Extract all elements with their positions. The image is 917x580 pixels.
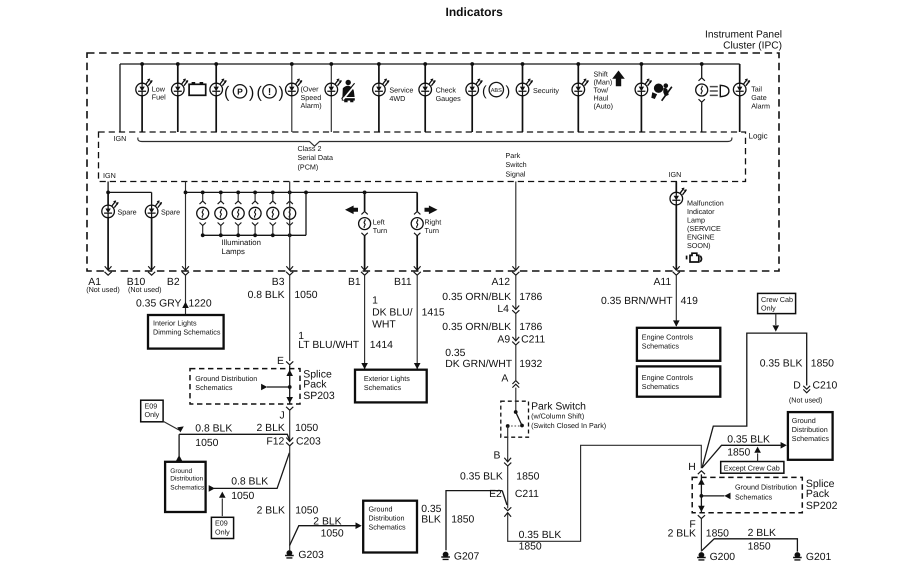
wire 0.8 BLK from GDS to F12 — [179, 434, 290, 440]
splice pack SP202 dashed box — [692, 477, 802, 512]
svg-text:Distribution: Distribution — [170, 476, 203, 483]
svg-text:C211: C211 — [515, 489, 539, 500]
pin A1 — [105, 266, 112, 270]
wire security lamp column — [522, 64, 524, 132]
svg-text:SP202: SP202 — [806, 500, 838, 512]
svg-text:0.35 BLK: 0.35 BLK — [760, 359, 803, 370]
box E09 Only (upper) — [141, 400, 163, 422]
park switch — [515, 388, 517, 412]
wire A9 to park switch A — [515, 345, 517, 380]
svg-text:0.35: 0.35 — [445, 348, 465, 359]
wire B1 to exterior lights — [364, 275, 366, 370]
wire B11 to exterior lights — [416, 275, 418, 370]
svg-text:Ground Distribution: Ground Distribution — [735, 482, 797, 491]
svg-text:D: D — [793, 381, 801, 392]
svg-text:1786: 1786 — [519, 322, 542, 333]
wire down to left GDS box — [178, 434, 180, 456]
svg-text:Cluster (IPC): Cluster (IPC) — [723, 41, 782, 52]
wire illumination bottom bus — [203, 192, 306, 235]
splice SP202 branch arrow — [701, 495, 724, 497]
svg-text:IGN: IGN — [669, 170, 682, 179]
svg-text:0.35 ORN/BLK: 0.35 ORN/BLK — [442, 322, 511, 333]
logic inner dashed box — [99, 132, 746, 182]
arrow into pin B2 — [182, 302, 189, 308]
leader except crew cab to wire — [757, 453, 759, 461]
pin B3 — [286, 266, 293, 270]
wire left turn column — [364, 192, 366, 270]
box ground distribution schematics (middle) — [363, 501, 417, 553]
svg-text:0.35 BRN/WHT: 0.35 BRN/WHT — [601, 296, 673, 307]
wire top ignition bus — [120, 63, 740, 65]
svg-text:Engine Controls: Engine Controls — [642, 332, 694, 341]
svg-text:G200: G200 — [710, 552, 736, 563]
illumination lamp 1 — [202, 192, 204, 235]
pin A12 — [512, 266, 519, 270]
lamp seat belt — [325, 79, 342, 96]
wire right turn column — [416, 192, 418, 270]
wire spare2 column — [151, 205, 153, 270]
box E09 Only (lower) — [211, 517, 233, 538]
wire 0.8 BLK 1050 from left GDS to G203 column — [214, 453, 289, 489]
pin B2 — [182, 266, 189, 270]
leader E09 to wire — [163, 421, 179, 430]
icon right turn arrow — [425, 206, 438, 215]
wire G207 branch — [446, 491, 507, 551]
svg-text:1850: 1850 — [748, 542, 771, 553]
svg-text:Schematics: Schematics — [369, 522, 407, 531]
wire spare1 column — [107, 192, 109, 270]
lamp security — [516, 79, 533, 96]
lamp spare 2 — [145, 200, 162, 217]
svg-text:SOON): SOON) — [687, 241, 711, 250]
svg-text:1850: 1850 — [516, 472, 539, 483]
svg-text:2 BLK: 2 BLK — [257, 423, 285, 434]
svg-text:L4: L4 — [497, 304, 509, 315]
box interior lights dimming schematics — [148, 315, 224, 349]
svg-text:2 BLK: 2 BLK — [668, 529, 696, 540]
svg-text:B1: B1 — [348, 277, 361, 288]
svg-text:1414: 1414 — [370, 340, 393, 351]
svg-text:1050: 1050 — [295, 505, 318, 516]
lamp abs — [466, 79, 483, 96]
svg-text:Pack: Pack — [806, 488, 830, 500]
svg-text:2 BLK: 2 BLK — [313, 517, 341, 528]
svg-text:1: 1 — [372, 296, 378, 307]
svg-text:4WD: 4WD — [389, 94, 405, 103]
wire H to right GDS — [702, 445, 781, 468]
wire B3 to splice pack E — [289, 275, 291, 361]
svg-text:Lamps: Lamps — [222, 247, 246, 256]
svg-text:Switch: Switch — [506, 160, 527, 169]
wire brake lamp column — [215, 64, 217, 132]
svg-text:1220: 1220 — [189, 298, 212, 309]
svg-text:): ) — [506, 83, 511, 99]
box engine controls schematics 1 — [637, 328, 720, 361]
svg-text:0.35 BLK: 0.35 BLK — [727, 434, 770, 445]
box crew cab only — [758, 293, 796, 313]
svg-text:1786: 1786 — [519, 292, 542, 303]
svg-text:DK BLU/: DK BLU/ — [372, 308, 413, 319]
box ground distribution schematics (left) — [165, 462, 206, 512]
svg-text:Schematics: Schematics — [364, 383, 402, 392]
svg-text:B11: B11 — [394, 277, 412, 288]
icon check engine — [687, 253, 702, 262]
svg-text:0.8 BLK: 0.8 BLK — [231, 477, 268, 488]
svg-text:A12: A12 — [492, 277, 511, 288]
wire low fuel lamp column — [141, 64, 143, 132]
svg-text:0.35 BLK: 0.35 BLK — [460, 472, 503, 483]
splice pack SP203 dashed box — [190, 369, 300, 404]
svg-text:J: J — [280, 411, 285, 422]
svg-text:1932: 1932 — [519, 359, 542, 370]
wire A12 column upper — [515, 182, 517, 270]
svg-text:): ) — [249, 85, 254, 102]
svg-text:1850: 1850 — [519, 541, 542, 552]
lamp left turn — [359, 211, 371, 236]
svg-text:E09: E09 — [215, 519, 228, 528]
pin B11 — [414, 266, 421, 270]
svg-text:2 BLK: 2 BLK — [257, 505, 285, 516]
wire service 4wd lamp column — [378, 64, 380, 132]
svg-text:BLK: BLK — [421, 514, 441, 525]
lamp check gauges — [419, 79, 436, 96]
ground G203 — [285, 550, 294, 558]
wire 2 BLK to G201 — [702, 539, 798, 552]
pin B10 — [148, 266, 155, 270]
svg-text:0.35: 0.35 — [421, 504, 441, 515]
box exterior lights schematics — [355, 370, 427, 403]
svg-text:ABS: ABS — [491, 88, 502, 94]
connector F12 C203 — [286, 438, 293, 442]
wire illumination top bus — [186, 191, 418, 193]
svg-text:0.8 BLK: 0.8 BLK — [248, 290, 285, 301]
svg-text:C203: C203 — [296, 437, 321, 448]
svg-text:Alarm): Alarm) — [301, 101, 322, 110]
svg-text:(Not used): (Not used) — [86, 285, 120, 294]
svg-text:Instrument Panel: Instrument Panel — [705, 30, 782, 41]
wire tail gate lamp column — [739, 64, 741, 132]
high beam icon — [710, 87, 718, 96]
svg-text:419: 419 — [681, 296, 699, 307]
IPC outer dashed box — [87, 53, 779, 271]
svg-text:0.35 ORN/BLK: 0.35 ORN/BLK — [442, 292, 511, 303]
lamp over speed alarm — [286, 79, 303, 96]
wire abs lamp column — [471, 64, 473, 132]
svg-text:F12: F12 — [266, 437, 284, 448]
svg-text:1050: 1050 — [295, 423, 318, 434]
lamp spare 1 — [102, 200, 119, 217]
svg-text:2 BLK: 2 BLK — [748, 528, 776, 539]
svg-text:G201: G201 — [806, 552, 832, 563]
illumination lamp 2 — [220, 192, 222, 235]
svg-text:(: ( — [224, 85, 230, 102]
svg-text:Spare: Spare — [118, 207, 137, 216]
svg-text:(Switch Closed In Park): (Switch Closed In Park) — [531, 421, 606, 430]
park switch dashed box — [501, 401, 529, 437]
svg-text:SP203: SP203 — [303, 390, 335, 402]
svg-text:1050: 1050 — [231, 491, 254, 502]
lamp brake warning — [210, 79, 227, 96]
wire shift lamp column — [577, 64, 579, 132]
svg-text:Illumination: Illumination — [222, 238, 261, 247]
wire check gauges lamp column — [424, 64, 426, 132]
wire A11 to engine controls — [675, 275, 677, 326]
wire park switch to B — [507, 426, 509, 462]
svg-text:A: A — [501, 373, 508, 384]
svg-text:Park: Park — [506, 151, 521, 160]
svg-text:Alarm: Alarm — [751, 102, 770, 111]
svg-text:Distribution: Distribution — [792, 425, 828, 434]
svg-text:Only: Only — [761, 303, 776, 312]
pin A11 — [673, 266, 680, 270]
svg-text:Pack: Pack — [303, 378, 327, 390]
svg-text:B: B — [494, 451, 501, 462]
icon shift up arrow — [612, 71, 625, 87]
svg-text:Schematics: Schematics — [195, 383, 233, 392]
splice SP203 internal wire — [289, 366, 291, 404]
svg-text:Schematics: Schematics — [792, 434, 830, 443]
wire A12 to L4 — [515, 275, 517, 309]
svg-text:1050: 1050 — [195, 438, 218, 449]
svg-text:P: P — [237, 87, 243, 97]
svg-text:Class 2: Class 2 — [298, 144, 322, 153]
wire battery lamp column — [177, 64, 179, 132]
svg-text:Schematics: Schematics — [170, 485, 205, 492]
leader E09 lower to wire — [221, 499, 223, 517]
ground G201 — [793, 552, 802, 560]
svg-text:A11: A11 — [654, 277, 672, 288]
svg-text:(PCM): (PCM) — [298, 163, 319, 172]
splice SP202 internal wire — [700, 474, 702, 512]
seat belt icon — [342, 80, 356, 102]
svg-text:(Not used): (Not used) — [789, 395, 823, 404]
wire J to F12 — [289, 410, 291, 441]
svg-text:B2: B2 — [167, 277, 180, 288]
svg-text:Only: Only — [145, 410, 160, 419]
ground G200 — [697, 552, 706, 560]
wire L4 to A9 — [515, 314, 517, 341]
svg-text:LT BLU/WHT: LT BLU/WHT — [298, 340, 359, 351]
svg-text:Ground: Ground — [792, 416, 816, 425]
svg-text:E: E — [277, 356, 284, 367]
svg-text:E09: E09 — [145, 401, 158, 410]
svg-text:1050: 1050 — [294, 290, 317, 301]
svg-text:Serial Data: Serial Data — [298, 153, 334, 162]
illumination lamp 4 — [254, 192, 256, 235]
battery icon — [189, 84, 206, 95]
svg-text:Exterior Lights: Exterior Lights — [364, 374, 410, 383]
wire B2 column upper — [185, 182, 187, 270]
svg-text:Dimming Schematics: Dimming Schematics — [153, 327, 221, 336]
wire overspeed lamp column — [291, 64, 293, 132]
svg-text:Signal: Signal — [506, 170, 526, 179]
svg-text:Schematics: Schematics — [642, 341, 680, 350]
wire 2 BLK to middle GDS — [290, 526, 357, 546]
svg-text:H: H — [688, 462, 696, 473]
svg-text:0.35 BLK: 0.35 BLK — [519, 530, 562, 541]
svg-text:1415: 1415 — [422, 308, 445, 319]
splice SP203 branch arrow — [267, 386, 290, 388]
lamp right turn — [411, 211, 423, 236]
svg-text:G203: G203 — [298, 550, 324, 561]
svg-text:Turn: Turn — [373, 226, 388, 235]
svg-text:1850: 1850 — [727, 447, 750, 458]
wire F12 to G203 — [289, 446, 291, 550]
svg-text:1850: 1850 — [811, 359, 834, 370]
svg-text:Ground Distribution: Ground Distribution — [195, 374, 257, 383]
svg-text:Schematics: Schematics — [735, 492, 773, 501]
svg-text:IGN: IGN — [114, 134, 127, 143]
wire B3 column upper — [289, 182, 291, 270]
brace Class 2 Serial Data — [138, 138, 732, 147]
svg-text:1050: 1050 — [321, 529, 344, 540]
svg-text:Logic: Logic — [749, 132, 768, 141]
svg-text:): ) — [279, 85, 284, 102]
wire F to G200 — [700, 519, 702, 552]
svg-text:Fuel: Fuel — [152, 93, 166, 102]
svg-text:IGN: IGN — [103, 171, 116, 180]
box engine controls schematics 2 — [637, 366, 720, 396]
box ground distribution schematics (right) — [788, 412, 833, 460]
svg-text:Interior Lights: Interior Lights — [153, 318, 197, 327]
wire airbag lamp column — [640, 64, 642, 132]
svg-text:Ground: Ground — [170, 468, 192, 475]
illumination lamp 6 — [289, 192, 291, 235]
svg-text:!: ! — [268, 87, 271, 98]
svg-text:B3: B3 — [272, 277, 285, 288]
wire IGN feed vertical — [119, 64, 121, 132]
svg-text:WHT: WHT — [372, 320, 396, 331]
svg-text:1850: 1850 — [451, 514, 474, 525]
wire A11 column upper — [675, 182, 677, 270]
lamp airbag — [635, 79, 652, 96]
svg-text:1850: 1850 — [706, 529, 729, 540]
wire E2 to H — [508, 445, 702, 541]
svg-text:Gauges: Gauges — [436, 94, 462, 103]
lamp headlamp indicator — [696, 78, 708, 103]
svg-text:C210: C210 — [813, 381, 838, 392]
wire headlamp indicator column — [701, 64, 703, 132]
pin B1 — [361, 266, 368, 270]
airbag icon — [651, 83, 672, 101]
ground G207 — [441, 552, 450, 560]
illumination lamp 5 — [272, 192, 274, 235]
svg-text:Distribution: Distribution — [369, 513, 405, 522]
lamp malfunction indicator — [670, 188, 687, 205]
svg-text:(: ( — [482, 83, 487, 99]
lamp battery indicator — [172, 79, 189, 96]
box except crew cab — [721, 462, 784, 474]
lamp service 4wd — [373, 79, 390, 96]
wire seat belt lamp column — [330, 64, 332, 132]
svg-text:Spare: Spare — [161, 207, 180, 216]
wire spare feed — [108, 182, 152, 206]
svg-text:(w/Column Shift): (w/Column Shift) — [531, 412, 584, 421]
svg-text:Except Crew Cab: Except Crew Cab — [724, 463, 780, 472]
svg-text:DK GRN/WHT: DK GRN/WHT — [445, 359, 513, 370]
lamp shift man tow haul — [572, 79, 589, 96]
wire B to E2 — [507, 466, 509, 508]
svg-text:0.35 GRY: 0.35 GRY — [136, 298, 182, 309]
svg-text:(: ( — [257, 85, 263, 102]
svg-text:(Not used): (Not used) — [128, 285, 162, 294]
lamp tail gate alarm — [733, 79, 750, 96]
svg-text:Security: Security — [533, 86, 559, 95]
svg-text:G207: G207 — [454, 552, 480, 563]
svg-text:C211: C211 — [521, 335, 545, 346]
svg-text:Schematics: Schematics — [642, 382, 680, 391]
svg-text:A9: A9 — [497, 335, 510, 346]
illumination lamp 3 — [237, 192, 239, 235]
wire crew cab circuit H to C210 — [702, 333, 807, 468]
svg-text:Ground: Ground — [369, 504, 393, 513]
svg-text:(Auto): (Auto) — [594, 102, 614, 111]
svg-text:Engine Controls: Engine Controls — [642, 373, 694, 382]
svg-text:Turn: Turn — [425, 226, 440, 235]
svg-text:Indicators: Indicators — [446, 5, 504, 19]
leader crew cab to wire — [775, 314, 777, 325]
svg-text:E2: E2 — [489, 489, 502, 500]
svg-text:Only: Only — [215, 527, 230, 536]
wire B2 to interior lights — [185, 275, 187, 315]
lamp low fuel — [136, 79, 153, 96]
icon left turn arrow — [345, 206, 358, 215]
svg-text:0.8 BLK: 0.8 BLK — [195, 423, 232, 434]
